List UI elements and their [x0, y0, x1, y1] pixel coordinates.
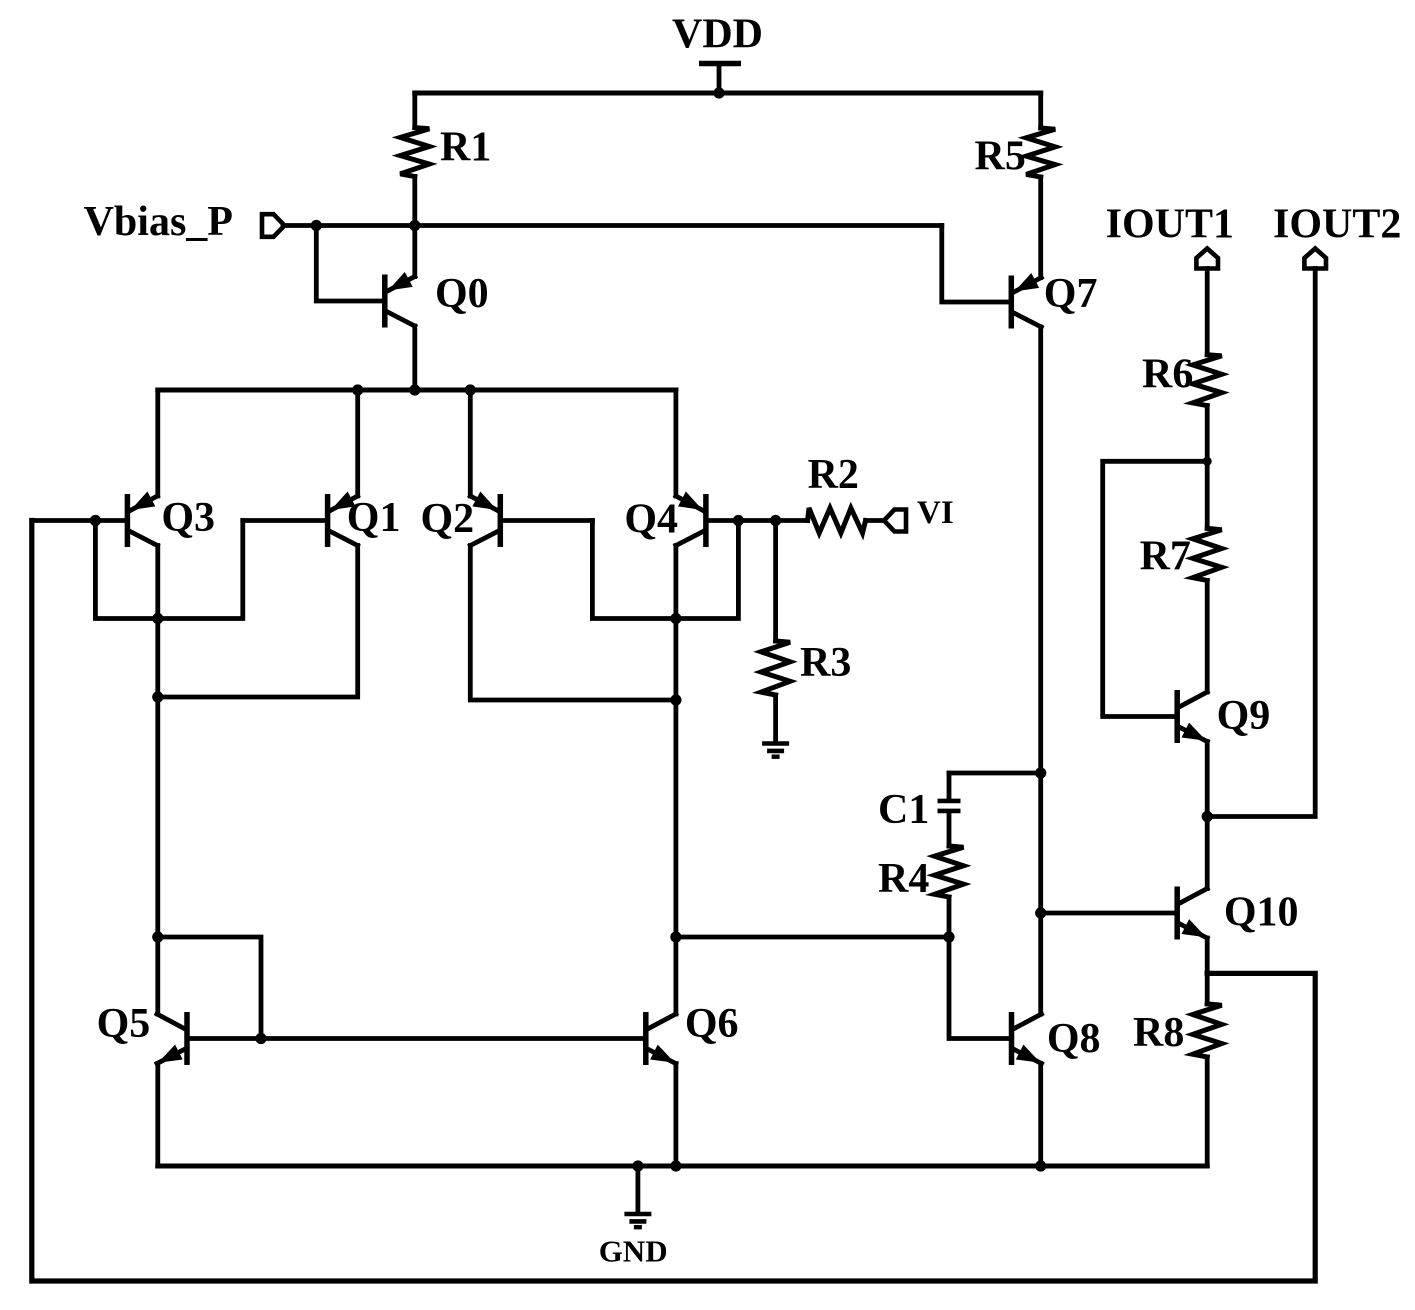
- R4 label: [878, 856, 929, 902]
- svg-text:VDD: VDD: [672, 12, 763, 58]
- VDD label: [672, 12, 763, 58]
- wire Q4 collector to R4/Q8 base: [676, 935, 949, 940]
- wire Q10 base link: [1041, 911, 1175, 916]
- wire Q0 collector drop: [412, 326, 417, 390]
- Q1 label: [347, 495, 401, 541]
- svg-text:Vbias_P: Vbias_P: [84, 199, 233, 245]
- node Q2 emitter dot: [465, 384, 476, 395]
- node Q9 emitter/IOUT2 dot: [1202, 811, 1213, 822]
- wire IOUT1 drop: [1205, 269, 1210, 355]
- ground GND symbol: [624, 1214, 651, 1227]
- wire Q0 emitter riser: [412, 226, 417, 277]
- node R6/R7 tap dot: [1203, 457, 1212, 466]
- R1 label: [440, 125, 491, 171]
- node Q0 collector dot: [409, 384, 420, 395]
- svg-text:R3: R3: [800, 640, 851, 686]
- wire GND stub: [636, 1166, 641, 1212]
- svg-text:R7: R7: [1140, 534, 1191, 580]
- wire R7 bypass to Q9 base: [1103, 461, 1208, 716]
- transistor Q9: [1177, 690, 1207, 743]
- wire Q9 emitter drop: [1205, 742, 1210, 817]
- svg-text:GND: GND: [599, 1234, 668, 1269]
- wire Q7 collector drop: [1038, 327, 1043, 1014]
- wire PNP emitter bus: [158, 388, 676, 393]
- Q4 label: [624, 497, 678, 543]
- svg-text:R5: R5: [975, 134, 1026, 180]
- wire Q6 emitter drop: [674, 1064, 679, 1167]
- wire Q3 base to left rail: [32, 518, 125, 523]
- transistor Q1: [328, 492, 358, 548]
- transistor Q0: [385, 272, 415, 328]
- node R3 tap dot: [770, 515, 781, 526]
- R2 label: [808, 452, 859, 498]
- C1 label: [878, 787, 929, 833]
- svg-text:Q0: Q0: [435, 271, 489, 317]
- node R4/Q8 base junction dot: [943, 931, 954, 942]
- svg-text:R2: R2: [808, 452, 859, 498]
- svg-text:R8: R8: [1133, 1010, 1184, 1056]
- svg-text:R4: R4: [878, 856, 929, 902]
- R6 label: [1142, 352, 1193, 398]
- node Q10 base tap dot: [1035, 907, 1046, 918]
- wire top VDD rail: [415, 91, 1041, 96]
- transistor Q8: [1012, 1012, 1042, 1065]
- node Q2/Q4 collector join dot: [670, 694, 681, 705]
- svg-text:Q2: Q2: [421, 496, 475, 542]
- wire Q2 emitter drop: [468, 390, 473, 496]
- resistor R4: [935, 846, 964, 937]
- resistor R5: [1026, 93, 1055, 278]
- wire Q8 base riser: [949, 937, 1009, 1039]
- resistor R3: [761, 521, 790, 742]
- transistor Q3: [127, 492, 157, 548]
- node Q3 collector/base-U dot: [152, 613, 163, 624]
- node GND tap dot: [632, 1160, 643, 1171]
- resistor R2: [808, 508, 884, 533]
- wire Q2 base link: [503, 518, 592, 523]
- wire Q0 base tap: [316, 226, 382, 302]
- wire Q3 emitter drop: [155, 390, 160, 496]
- transistor Q4: [676, 492, 706, 548]
- resistor R7: [1193, 528, 1222, 692]
- Q8 label: [1047, 1016, 1101, 1062]
- wire Vbias_P to Q7 base riser: [283, 223, 942, 228]
- svg-text:Q8: Q8: [1047, 1016, 1101, 1062]
- node Q3 base tap dot: [90, 515, 101, 526]
- svg-text:Q4: Q4: [624, 497, 678, 543]
- wire Q4 base to R2: [709, 518, 808, 523]
- node VDD junction dot: [713, 87, 724, 98]
- svg-text:R1: R1: [440, 125, 491, 171]
- R8 label: [1133, 1010, 1184, 1056]
- transistor Q6: [646, 1012, 676, 1065]
- wire Q5 diode loop: [158, 937, 261, 1039]
- IOUT2 label: [1273, 202, 1401, 248]
- Q9 label: [1217, 693, 1271, 739]
- wire Q1 collector drop: [158, 546, 358, 698]
- svg-text:Q6: Q6: [685, 1001, 739, 1047]
- wire Q2 collector drop: [470, 546, 676, 701]
- R3 label: [800, 640, 851, 686]
- transistor Q5: [157, 1012, 187, 1065]
- resistor R1: [400, 93, 429, 226]
- node Q1 emitter dot: [352, 384, 363, 395]
- Q6 label: [685, 1001, 739, 1047]
- svg-text:C1: C1: [878, 787, 929, 833]
- node Q5 mirror tap dot: [152, 931, 163, 942]
- VDD power symbol: [699, 64, 741, 94]
- wire Q10 emitter drop: [1205, 938, 1210, 973]
- Q10 label: [1224, 890, 1299, 936]
- Vbias_P label: [84, 199, 233, 245]
- svg-text:Q10: Q10: [1224, 890, 1299, 936]
- wire Q4-Q2 base U-link: [592, 521, 738, 619]
- R7 label: [1140, 534, 1191, 580]
- node Q6 emitter dot: [670, 1160, 681, 1171]
- node Q8 emitter dot: [1035, 1160, 1046, 1171]
- wire Q5-Q6 base link: [190, 1036, 643, 1041]
- Q3 label: [161, 495, 215, 541]
- wire Q8 emitter drop: [1038, 1064, 1043, 1167]
- node Q3/Q1 collector join dot: [152, 691, 163, 702]
- VI label: [917, 495, 954, 531]
- Q0 label: [435, 271, 489, 317]
- wire IOUT2 drop: [1207, 269, 1315, 817]
- R5 label: [975, 134, 1026, 180]
- wire left outer rail: [32, 521, 1315, 1282]
- svg-text:R6: R6: [1142, 352, 1193, 398]
- wire Q9-Q10 link: [1205, 817, 1210, 889]
- svg-text:Q9: Q9: [1217, 693, 1271, 739]
- resistor R8: [1193, 973, 1222, 1166]
- svg-text:Q3: Q3: [161, 495, 215, 541]
- wire Q4 emitter drop: [674, 390, 679, 496]
- ground under R3: [762, 744, 789, 757]
- Q2 label: [421, 496, 475, 542]
- svg-text:IOUT2: IOUT2: [1273, 202, 1401, 248]
- wire Q1 base link: [243, 518, 325, 523]
- port VI: [884, 510, 906, 532]
- transistor Q7: [1011, 273, 1041, 329]
- node Vbias tap dot: [311, 220, 322, 231]
- svg-text:Q1: Q1: [347, 495, 401, 541]
- port Vbias_P: [262, 214, 285, 237]
- node Q4 base tap dot: [733, 515, 744, 526]
- node Q4 collector mid dot: [670, 931, 681, 942]
- transistor Q10: [1177, 887, 1207, 940]
- wire Q7 base riser: [942, 226, 1009, 303]
- wire Q3-Q1 base U-link: [95, 521, 242, 619]
- wire Q4 collector drop: [674, 546, 679, 1015]
- resistor R6: [1193, 355, 1222, 529]
- wire Q1 emitter drop: [355, 390, 360, 496]
- wire C1 top link: [949, 771, 1041, 776]
- IOUT1 label: [1106, 202, 1234, 248]
- wire Q3 collector drop: [155, 546, 160, 1015]
- svg-text:Q7: Q7: [1044, 271, 1098, 317]
- svg-text:IOUT1: IOUT1: [1106, 202, 1234, 248]
- GND label: [599, 1234, 668, 1269]
- port IOUT2: [1304, 249, 1326, 269]
- Q5 label: [97, 1001, 151, 1047]
- wire bottom ground bus: [158, 1164, 1207, 1169]
- wire Q5 emitter drop: [155, 1064, 160, 1167]
- node Q4 collector/base-U dot: [670, 613, 681, 624]
- svg-text:VI: VI: [917, 495, 954, 531]
- svg-text:Q5: Q5: [97, 1001, 151, 1047]
- node Q5 base loop dot: [255, 1033, 266, 1044]
- capacitor C1: [938, 773, 961, 846]
- transistor Q2: [470, 492, 500, 548]
- port IOUT1: [1196, 249, 1218, 269]
- Q7 label: [1044, 271, 1098, 317]
- node C1/Q7-collector dot: [1035, 767, 1046, 778]
- node R1/Q0 emitter junction dot: [409, 220, 420, 231]
